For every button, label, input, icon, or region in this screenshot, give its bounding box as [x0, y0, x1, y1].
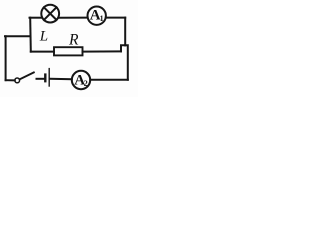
svg-text:L: L	[39, 28, 48, 44]
wire right vertical	[124, 18, 126, 46]
wire top-left lamp branch horizontal	[30, 17, 43, 19]
wire battery to ammeter A2	[50, 78, 72, 80]
battery negative plate (short)	[44, 75, 46, 82]
wire A2 to bottom-right corner	[90, 79, 128, 81]
wire A1 to top-right corner	[106, 17, 125, 19]
wire lamp to ammeter A1	[59, 17, 88, 19]
ammeter A2	[72, 71, 90, 89]
wire bottom-left to switch	[6, 79, 15, 81]
resistor branch right wire	[83, 50, 122, 52]
svg-text:R: R	[68, 31, 79, 48]
resistor branch left wire	[31, 51, 54, 53]
wire resistor elbow up	[121, 45, 125, 51]
switch S lever	[20, 72, 34, 79]
wire outer-loop left vertical	[5, 36, 7, 80]
ammeter A1	[88, 7, 106, 25]
lamp L	[41, 5, 59, 23]
svg-text:1: 1	[100, 14, 104, 23]
battery positive plate (long)	[48, 69, 50, 86]
switch S pivot	[15, 78, 20, 83]
wire left connector to outer loop	[5, 35, 30, 37]
svg-text:2: 2	[84, 79, 88, 88]
wire switch to battery	[37, 78, 45, 80]
wire right vertical lower	[125, 45, 128, 80]
wire lamp-branch left vertical	[29, 18, 32, 52]
resistor R	[54, 47, 83, 55]
